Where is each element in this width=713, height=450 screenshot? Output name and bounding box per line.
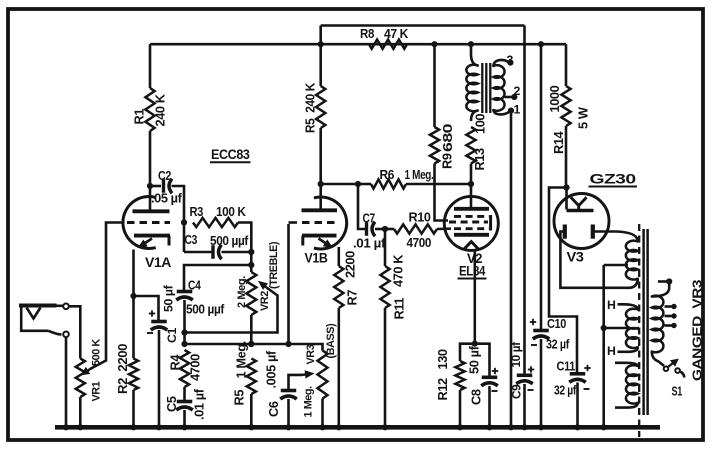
label GZ30 xyxy=(589,172,638,187)
wire to R12 xyxy=(460,344,475,361)
wire secondary terminal 1 lead xyxy=(493,110,509,114)
wire HT centre tap xyxy=(604,264,628,267)
wire tone network node line xyxy=(185,344,323,351)
svg-text:R4: R4 xyxy=(168,354,183,371)
svg-text:32 µf: 32 µf xyxy=(554,383,577,398)
svg-text:130: 130 xyxy=(435,349,450,369)
label C3 xyxy=(185,232,198,247)
capacitor C1 xyxy=(151,322,168,331)
wire C4 node to bass node xyxy=(183,333,186,345)
value C6 .005 uf xyxy=(264,350,279,388)
polarity C8 plus xyxy=(492,368,498,374)
wire R11 to ground xyxy=(384,308,387,427)
svg-text:R1: R1 xyxy=(132,109,147,125)
node C10 ground xyxy=(538,424,544,430)
svg-text:1 Meg.: 1 Meg. xyxy=(303,386,315,418)
resistor R14 xyxy=(561,86,570,126)
value R7 2200 xyxy=(343,251,358,278)
resistor R9 xyxy=(430,127,439,164)
svg-text:4700: 4700 xyxy=(407,235,432,250)
wire C4 down xyxy=(183,300,186,333)
svg-text:H: H xyxy=(607,298,616,312)
label 1 xyxy=(514,103,521,117)
terminal tap 3 xyxy=(671,323,676,328)
node R2 ground xyxy=(130,424,136,430)
svg-text:C1: C1 xyxy=(165,328,179,343)
svg-text:R8: R8 xyxy=(360,26,374,41)
polarity C1 minus xyxy=(147,332,153,334)
label R5 xyxy=(232,390,247,406)
node R4C5 ground xyxy=(181,424,187,430)
V2 grid g3 xyxy=(454,215,489,218)
wire C3 right xyxy=(222,251,252,254)
wire R12 to ground xyxy=(459,390,462,427)
value C11 32 uf xyxy=(554,383,577,398)
capacitor C9 xyxy=(516,375,533,384)
wire C2 left xyxy=(150,185,161,188)
svg-text:H: H xyxy=(607,344,616,358)
wire V2 plate lead xyxy=(470,184,473,208)
transformer T2 core xyxy=(639,224,647,437)
svg-text:C10: C10 xyxy=(547,316,566,331)
label 2 xyxy=(514,84,521,98)
transformer T1 primary xyxy=(466,65,477,112)
svg-text:R2 2200: R2 2200 xyxy=(115,344,130,394)
resistor R13 xyxy=(466,127,475,164)
V1A grid xyxy=(127,221,170,224)
value R14 1000 xyxy=(547,85,562,112)
svg-text:240 K: 240 K xyxy=(153,93,168,126)
value C9 10 uf xyxy=(509,342,523,368)
label R7 xyxy=(345,290,360,306)
svg-text:2 Meg.: 2 Meg. xyxy=(236,276,248,308)
capacitor C3 xyxy=(213,245,222,260)
switch S1 xyxy=(664,359,685,378)
node cathode/C1 junction xyxy=(130,293,136,299)
transformer T2 heater winding upper xyxy=(626,309,638,329)
node V2 cathode junction xyxy=(472,341,478,347)
label R2 2200 xyxy=(115,344,130,394)
V3 filament xyxy=(571,197,587,210)
resistor R5 240K xyxy=(316,86,325,128)
capacitor C10 xyxy=(533,331,550,340)
wire upper rail to C9 xyxy=(523,26,526,376)
wire branch down to C7 xyxy=(358,184,367,229)
node VR1 ground xyxy=(77,424,83,430)
transformer T2 heater winding lower xyxy=(626,328,638,348)
wire V3 left anode to HT bottom xyxy=(560,232,629,288)
label C11 xyxy=(557,359,576,374)
node C7/R10/R11 xyxy=(382,226,388,232)
polarity C10 minus xyxy=(531,344,537,346)
wire node A down to C3 xyxy=(183,223,186,253)
wire rail to C10 xyxy=(540,44,543,330)
wire R7 to ground xyxy=(337,308,340,427)
wire VR2 wiper loop xyxy=(185,288,278,333)
resistor R2 xyxy=(129,359,138,391)
VR3 wiper arrow xyxy=(302,370,315,378)
node R12 ground xyxy=(457,424,463,430)
node B C3 right xyxy=(248,249,254,255)
svg-text:2: 2 xyxy=(514,84,521,98)
wire V3 top lead xyxy=(565,188,568,210)
svg-text:100: 100 xyxy=(473,114,488,134)
wire R3 right xyxy=(238,223,251,266)
svg-text:1 Meg.: 1 Meg. xyxy=(405,167,434,182)
svg-text:GANGED VR3: GANGED VR3 xyxy=(690,280,705,381)
value C4 500 uuf xyxy=(186,302,225,317)
tube V2 envelope xyxy=(444,196,498,250)
svg-text:V1A: V1A xyxy=(145,255,172,270)
wire rail to R14 xyxy=(565,44,568,86)
wire HT top lead xyxy=(615,232,638,242)
wire VR3 to ground xyxy=(321,399,324,428)
label C1 50 uf xyxy=(162,284,176,312)
label VR1 xyxy=(91,381,103,401)
value C5 .01 uf xyxy=(192,388,207,420)
svg-text:R6: R6 xyxy=(380,167,395,182)
svg-text:GZ30: GZ30 xyxy=(590,172,636,187)
value C10 32 uf xyxy=(546,337,570,352)
value R3 100 K xyxy=(216,204,247,219)
resistor R4 xyxy=(180,350,189,387)
resistor R3 xyxy=(193,218,238,227)
wire primary tap 2 xyxy=(665,315,673,318)
resistor R7 xyxy=(334,266,343,308)
svg-text:R14: R14 xyxy=(551,130,566,154)
value R5 1 Meg. xyxy=(234,341,249,378)
wire V1B grid line xyxy=(287,224,290,344)
wire primary top lead xyxy=(652,282,669,297)
value VR3 1 Meg. xyxy=(303,386,315,418)
ground bus xyxy=(55,425,660,430)
wire C8 to ground xyxy=(488,386,491,427)
wire R5 to plate node xyxy=(319,128,322,184)
tube V3 envelope xyxy=(554,194,609,249)
node V2 plate junction xyxy=(468,181,474,187)
wire to C8 xyxy=(475,344,490,377)
V1B cathode xyxy=(302,236,337,246)
V1A plate xyxy=(133,209,170,213)
wire C1 to ground xyxy=(158,330,161,427)
wire OPT primary bottom lead xyxy=(471,111,478,122)
wire HT lower rail xyxy=(150,43,566,46)
capacitor C8 xyxy=(481,377,498,386)
terminal tap 1 xyxy=(671,304,676,309)
label R13 xyxy=(472,148,487,171)
value R11 470 K xyxy=(391,254,406,287)
wire preamp bypass upper rail xyxy=(321,24,525,27)
wire R10 to V2 grid xyxy=(437,227,451,230)
label 5 W xyxy=(576,106,591,129)
wire R10 lead xyxy=(385,228,394,231)
wire secondary terminal 2 lead xyxy=(505,96,513,99)
label C4 xyxy=(188,278,202,293)
value C2 .05 uf xyxy=(151,191,183,206)
label R11 xyxy=(392,298,407,320)
input jack J1 xyxy=(19,304,69,338)
svg-text:2200: 2200 xyxy=(343,251,358,278)
svg-text:1 Meg.: 1 Meg. xyxy=(234,341,249,378)
svg-text:500 µµf: 500 µµf xyxy=(210,233,249,248)
svg-text:R11: R11 xyxy=(392,298,407,320)
wire C11 to ground xyxy=(576,383,579,428)
svg-text:.005 µf: .005 µf xyxy=(264,350,279,388)
label EL84 xyxy=(458,264,487,279)
svg-text:C9: C9 xyxy=(510,384,524,399)
node rail/OPT junction xyxy=(468,41,474,47)
label R4 xyxy=(168,354,183,371)
wire rail to R1 xyxy=(149,44,152,88)
wire R4 to C5 xyxy=(183,387,186,401)
V2 grid g1 xyxy=(454,227,489,230)
potentiometer VR2 xyxy=(246,272,256,315)
capacitor C7 xyxy=(367,222,376,237)
svg-text:R7: R7 xyxy=(345,290,360,306)
tube V1B envelope xyxy=(314,197,347,249)
svg-text:C8: C8 xyxy=(469,389,484,405)
node C11 ground xyxy=(574,424,580,430)
svg-text:1: 1 xyxy=(514,103,521,117)
node V1B grid junction xyxy=(285,341,291,347)
svg-text:C7: C7 xyxy=(363,211,376,226)
node R5 ground xyxy=(248,424,254,430)
label R8 xyxy=(360,26,374,41)
label BASS xyxy=(325,323,337,359)
label R3 xyxy=(190,204,204,219)
svg-text:VR1: VR1 xyxy=(91,381,103,401)
label R12 xyxy=(435,378,450,401)
svg-text:VR3: VR3 xyxy=(305,344,317,364)
polarity C8 minus xyxy=(492,390,498,392)
svg-text:50 µf: 50 µf xyxy=(162,284,176,312)
wire C7 right xyxy=(375,228,385,231)
tube V1A envelope xyxy=(123,197,156,249)
wire jack sleeve to ground xyxy=(65,337,68,427)
terminal 1 xyxy=(508,108,514,114)
polarity C11 plus xyxy=(584,365,590,371)
wire CT ground line xyxy=(602,265,605,427)
value VR1 500 K xyxy=(91,339,103,366)
transformer T2 HT winding xyxy=(626,241,638,280)
V1B cathode hook xyxy=(319,239,334,249)
svg-text:(BASS): (BASS) xyxy=(325,323,337,359)
label R9 xyxy=(440,153,455,169)
terminal 3 xyxy=(507,60,513,66)
resistor R11 xyxy=(380,266,389,308)
wire rectifier heater top lead xyxy=(615,363,638,366)
transformer T1 secondary xyxy=(493,65,504,111)
label C6 xyxy=(266,401,281,417)
node V1A plate/C2 xyxy=(147,183,153,189)
svg-text:50 µf: 50 µf xyxy=(467,345,482,374)
wire V1B plate to C7 branch xyxy=(321,183,358,186)
value C3 500 uuf xyxy=(210,233,249,248)
capacitor C5 xyxy=(176,402,193,411)
svg-text:C4: C4 xyxy=(188,278,202,293)
node CT/heater junction xyxy=(601,325,607,331)
wire VR2 top xyxy=(250,265,253,272)
node rail/R9 junction xyxy=(431,41,437,47)
wire heater H lower lead xyxy=(618,347,638,352)
wire V1A cathode line xyxy=(132,250,135,359)
svg-text:R5 240 K: R5 240 K xyxy=(303,82,318,133)
label R14 xyxy=(551,130,566,154)
svg-text:C11: C11 xyxy=(557,359,576,374)
svg-text:R13: R13 xyxy=(472,148,487,171)
label H lower xyxy=(607,344,616,358)
resistor R12 xyxy=(455,361,464,390)
label H upper xyxy=(607,298,616,312)
resistor R8 xyxy=(369,40,407,49)
polarity C1 plus xyxy=(149,310,155,316)
VR1 wiper arrow xyxy=(80,367,91,376)
label TREBLE xyxy=(268,241,280,289)
wire C9 to ground xyxy=(523,384,526,427)
V2 heater caret xyxy=(465,242,479,249)
svg-text:100 K: 100 K xyxy=(216,204,247,219)
svg-text:3: 3 xyxy=(507,53,514,67)
wire VR3 wiper to C6 xyxy=(289,375,303,390)
potentiometer VR3 xyxy=(318,351,328,399)
svg-text:47 K: 47 K xyxy=(384,26,409,41)
V2 grid g2 xyxy=(449,221,488,224)
label R1 xyxy=(132,109,147,125)
wire VR1 wiper to V1A grid xyxy=(90,223,125,370)
svg-text:470 K: 470 K xyxy=(391,254,406,287)
transformer T2 primary xyxy=(652,296,664,353)
svg-text:R10: R10 xyxy=(409,210,431,225)
node C6 ground xyxy=(285,424,291,430)
wire R5 to ground xyxy=(250,394,253,427)
node C4/wiper junction xyxy=(181,329,187,335)
wire rail to R9 xyxy=(433,44,436,127)
wire plate lead V1B xyxy=(319,184,322,210)
value R5 240 K xyxy=(303,82,318,133)
svg-text:5 W: 5 W xyxy=(576,106,591,129)
wire rectifier heater bottom lead xyxy=(615,403,638,408)
wire node B to C4 xyxy=(184,265,251,292)
label C2 xyxy=(158,168,171,183)
wire C3 left xyxy=(184,251,213,254)
wire C1 branch xyxy=(134,296,159,322)
V3 cathode bar xyxy=(567,209,594,213)
wire V2 cathode lead xyxy=(473,250,476,343)
node VR2 bottom xyxy=(248,341,254,347)
node R7 ground xyxy=(336,424,342,430)
polarity C10 plus xyxy=(530,319,536,325)
V2 cathode xyxy=(454,233,489,237)
label C5 xyxy=(164,396,179,412)
wire OPT primary top lead xyxy=(471,44,478,65)
svg-text:VR2: VR2 xyxy=(259,291,271,311)
wire primary bottom lead xyxy=(652,352,664,366)
wire R14 to V3 xyxy=(565,126,568,188)
capacitor C6 xyxy=(280,391,297,400)
wire V1B plate column xyxy=(319,44,322,86)
node C7 branch xyxy=(355,181,361,187)
label C10 xyxy=(547,316,566,331)
V2 plate xyxy=(454,207,489,211)
label VR2 xyxy=(259,291,271,311)
svg-text:C5: C5 xyxy=(164,396,179,412)
svg-text:32 µf: 32 µf xyxy=(546,337,570,352)
node jack sleeve ground xyxy=(63,424,69,430)
V1A cathode hook xyxy=(138,239,153,249)
node R5 top xyxy=(248,341,254,347)
resistor R5 1Meg xyxy=(247,359,256,395)
svg-text:V1B: V1B xyxy=(305,251,329,266)
wire V1B cathode to R7 xyxy=(337,247,340,266)
wire R9 to screen xyxy=(435,164,449,221)
wire R6 lead left xyxy=(358,183,371,186)
svg-text:C2: C2 xyxy=(158,168,171,183)
label C8 xyxy=(469,389,484,405)
node C1 ground xyxy=(156,424,162,430)
node C8 ground xyxy=(486,424,492,430)
svg-text:ECC83: ECC83 xyxy=(211,147,250,162)
resistor R10 xyxy=(394,224,437,233)
label V1A xyxy=(145,255,172,270)
svg-text:.01 µf: .01 µf xyxy=(192,388,207,420)
wire primary tap 1 xyxy=(665,305,673,308)
svg-text:S1: S1 xyxy=(672,384,683,399)
label S1 xyxy=(672,384,683,399)
V2 g3 tie bar xyxy=(489,215,492,231)
wire jack tip to VR1 xyxy=(69,306,81,358)
node tone network left xyxy=(181,341,187,347)
wire R11 top lead xyxy=(384,229,387,266)
svg-text:R12: R12 xyxy=(435,378,450,401)
value R10 4700 xyxy=(407,235,432,250)
wire VR2 bottom xyxy=(250,315,253,344)
label 3 xyxy=(507,53,514,67)
wire C6 to ground xyxy=(287,399,290,427)
wire R1 to plate node xyxy=(149,131,152,186)
capacitor C11 xyxy=(569,374,586,383)
wire secondary to ground xyxy=(510,111,513,427)
V1B grid xyxy=(289,221,337,224)
V1A cathode xyxy=(134,236,170,246)
svg-text:4700: 4700 xyxy=(188,354,203,381)
svg-text:500 µµf: 500 µµf xyxy=(186,302,225,317)
value R6 1 Meg. xyxy=(405,167,434,182)
value C8 50 uf xyxy=(467,345,482,374)
wire primary top stub xyxy=(658,280,669,283)
wire primary tap 3 xyxy=(665,324,673,327)
svg-text:.01 µf: .01 µf xyxy=(353,236,386,251)
node R11 ground xyxy=(382,424,388,430)
value R9 680 xyxy=(440,124,455,152)
node C9 ground xyxy=(521,424,527,430)
wire secondary terminal 3 lead xyxy=(493,60,508,66)
wire C10 to ground xyxy=(540,339,543,427)
svg-text:V3: V3 xyxy=(567,250,584,265)
resistor R6 xyxy=(371,179,406,188)
transformer T2 rectifier heater winding xyxy=(626,365,638,403)
node secondary ground xyxy=(508,424,514,430)
svg-text:R9: R9 xyxy=(440,153,455,169)
VR2 wiper arrow xyxy=(258,281,268,290)
value R4 4700 xyxy=(188,354,203,381)
svg-text:R3: R3 xyxy=(190,204,204,219)
label GANGED VR3 xyxy=(690,280,705,381)
label V3 xyxy=(567,250,584,265)
label 2 Meg. xyxy=(236,276,248,308)
svg-text:R5: R5 xyxy=(232,390,247,406)
terminal tap 2 xyxy=(671,313,676,318)
svg-text:10 µf: 10 µf xyxy=(509,342,523,368)
